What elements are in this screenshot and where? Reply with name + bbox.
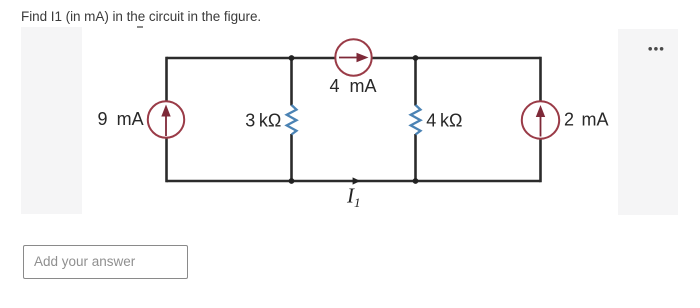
resistor R1 3 kOhm zigzag bbox=[287, 105, 297, 135]
wire: 3k branch top lead bbox=[290, 58, 293, 106]
current source I_S3 2 mA circle bbox=[522, 101, 559, 138]
current source I_S2 4 mA circle bbox=[335, 39, 371, 75]
resistor R2 4 kOhm zigzag bbox=[411, 105, 421, 135]
svg-text:3: 3 bbox=[245, 111, 255, 131]
svg-text:9: 9 bbox=[98, 109, 108, 129]
current source I_S3 arrow bbox=[536, 105, 545, 137]
svg-text:kΩ: kΩ bbox=[259, 111, 281, 131]
small dash under "the" bbox=[137, 26, 143, 28]
svg-text:2: 2 bbox=[564, 110, 574, 130]
svg-text:mA: mA bbox=[117, 109, 144, 129]
svg-text:I1: I1 bbox=[346, 184, 361, 211]
wire: top side of loop bbox=[167, 57, 541, 60]
current source I_S2 arrow bbox=[339, 53, 369, 62]
node dot top of 4k branch bbox=[413, 55, 419, 61]
wire: left side of loop bbox=[165, 57, 168, 183]
answer input box bbox=[23, 245, 188, 279]
wire: bottom side of loop bbox=[167, 180, 541, 183]
left gray panel bbox=[21, 27, 82, 214]
wire: 3k branch bottom lead bbox=[290, 134, 293, 181]
current source I_S1 9 mA circle bbox=[148, 101, 184, 137]
current source I_S1 arrow bbox=[161, 105, 170, 137]
wire: right side of loop bbox=[539, 57, 542, 183]
svg-text:kΩ: kΩ bbox=[440, 111, 462, 131]
right gray panel bbox=[618, 29, 678, 215]
node dot top of 3k branch bbox=[289, 55, 295, 61]
svg-text:mA: mA bbox=[582, 110, 609, 130]
svg-text:4: 4 bbox=[426, 111, 436, 131]
svg-text:4: 4 bbox=[330, 76, 340, 96]
svg-text:mA: mA bbox=[350, 76, 377, 96]
wire: 4k branch bottom lead bbox=[414, 134, 417, 181]
current I1 direction arrowhead on bottom wire bbox=[353, 177, 361, 184]
node dot bottom of 3k branch bbox=[289, 178, 295, 184]
overflow menu dots bbox=[648, 47, 663, 51]
wire: 4k branch top lead bbox=[414, 58, 417, 106]
node dot bottom of 4k branch bbox=[413, 178, 419, 184]
question title text bbox=[21, 9, 261, 24]
